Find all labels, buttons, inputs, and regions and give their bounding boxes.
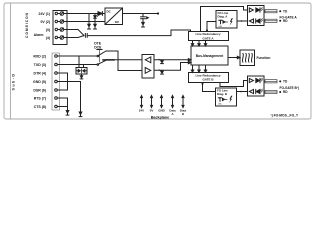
label RD A bbox=[283, 19, 288, 23]
ground TVS bbox=[80, 76, 83, 79]
pin RXD (2) label bbox=[33, 54, 46, 58]
TVS on line 1 bbox=[159, 59, 163, 63]
B TX driver triangle bbox=[249, 78, 253, 82]
wire CTS stub bbox=[60, 106, 68, 108]
wire gate A TX up and over bbox=[201, 7, 248, 32]
wire RX B from transceiver to diag B bbox=[237, 91, 248, 93]
node gate A junction dot bbox=[206, 29, 208, 31]
Line Redundancy GATE A box bbox=[189, 32, 229, 41]
svg-text:RXD (2): RXD (2) bbox=[33, 54, 46, 58]
pin TXD circle bbox=[55, 63, 60, 66]
arrowhead into function bbox=[237, 56, 240, 58]
FO transceiver B box bbox=[248, 76, 265, 96]
svg-text:B: B bbox=[182, 112, 184, 116]
svg-text:24V (1): 24V (1) bbox=[39, 12, 50, 16]
Sub-D vertical label bbox=[12, 72, 16, 90]
diag B meter glyph bbox=[218, 98, 227, 102]
A photodiode bbox=[256, 19, 263, 24]
svg-text:DTR (4): DTR (4) bbox=[34, 71, 46, 75]
TVS on line 2 bbox=[159, 70, 163, 74]
ground 24V tap bbox=[88, 24, 91, 29]
terminal Alarm (4) label bbox=[34, 33, 50, 40]
Function label bbox=[257, 56, 271, 60]
svg-text:Sub-D: Sub-D bbox=[12, 72, 16, 90]
label Backplane bbox=[151, 116, 169, 120]
pin GND (5) label bbox=[33, 80, 46, 84]
svg-text:0V: 0V bbox=[150, 109, 154, 113]
terminal 1 screw symbol bbox=[55, 12, 64, 16]
bus arrows gate A to bus management bbox=[191, 41, 206, 47]
terminal 2 screw symbol bbox=[55, 20, 64, 24]
svg-text:0V (2): 0V (2) bbox=[40, 20, 50, 24]
ground GND net bbox=[79, 112, 82, 117]
backplane arrow 24V bbox=[141, 95, 143, 107]
Bus-Management box bbox=[191, 46, 228, 65]
pin RTS circle bbox=[55, 97, 60, 100]
Sub-D connector block bbox=[52, 53, 60, 110]
wire DTR-DSR jumper bbox=[60, 73, 68, 90]
diode D1 polarity protection bbox=[98, 12, 105, 16]
node gate B junction dot bbox=[202, 83, 204, 85]
wire alarm contact from (4) bbox=[64, 37, 78, 39]
wire capacitor to ground bbox=[142, 19, 144, 23]
FO Line Diag A box bbox=[216, 11, 237, 29]
wire TVS stub from TXD bbox=[83, 65, 85, 68]
arrowhead into bus management bottom bbox=[188, 61, 191, 63]
node TD A dot bbox=[279, 10, 281, 12]
A LED emitter bbox=[256, 8, 263, 13]
coil 1 bbox=[241, 53, 244, 62]
RS-232 transceiver U2 bbox=[142, 55, 154, 79]
B RX buffer triangle bbox=[249, 89, 253, 93]
svg-text:RTS (7): RTS (7) bbox=[34, 96, 46, 100]
COMBICON vertical label bbox=[25, 12, 29, 38]
switch S1 linkage bbox=[97, 49, 102, 51]
diag A bolt glyph bbox=[230, 18, 233, 25]
U2 receive buffer bbox=[145, 57, 151, 63]
wire RXD bbox=[60, 55, 98, 57]
wire U2 bottom output to bus management bbox=[154, 63, 189, 71]
label FO-GATE A bbox=[280, 16, 298, 20]
wire TXD bbox=[60, 64, 98, 66]
pin DTR circle bbox=[55, 72, 60, 75]
arrowhead into bus management top bbox=[188, 59, 191, 61]
diag B bolt glyph bbox=[229, 96, 232, 103]
ground 0V tap bbox=[94, 24, 97, 29]
svg-text:CTS (8): CTS (8) bbox=[34, 105, 46, 109]
backplane arrow GND bbox=[161, 95, 163, 107]
relay contact K1 bbox=[78, 30, 85, 38]
svg-text:(3): (3) bbox=[46, 28, 50, 32]
B LED emitter bbox=[256, 78, 263, 83]
U2 transmit buffer bbox=[145, 68, 151, 74]
node RX A dot bbox=[241, 20, 243, 22]
COMBICON terminal block bbox=[53, 11, 67, 45]
coil 3 bbox=[247, 53, 250, 62]
svg-text:Alarm: Alarm bbox=[34, 33, 44, 37]
pin RXD circle bbox=[55, 55, 60, 58]
svg-text:TD: TD bbox=[283, 9, 288, 13]
capacitor C1 bbox=[141, 17, 149, 19]
coil 2 bbox=[244, 53, 247, 62]
svg-text:LWL: LWL bbox=[219, 26, 223, 28]
svg-text:DCE: DCE bbox=[94, 46, 102, 50]
svg-text:GATE B: GATE B bbox=[202, 78, 214, 82]
wire gate B TX down and over bbox=[220, 81, 248, 87]
wire RX A from transceiver to diag A bbox=[237, 20, 248, 22]
svg-text:LWL: LWL bbox=[218, 104, 222, 106]
pin CTS circle bbox=[55, 105, 60, 108]
pin DTR (4) label bbox=[34, 71, 46, 75]
svg-text:GATE A: GATE A bbox=[203, 36, 215, 40]
switch S1 pole RXD bbox=[97, 51, 118, 57]
pin DSR (6) label bbox=[33, 88, 46, 92]
terminal 24V (1) label bbox=[39, 12, 50, 16]
svg-text:Backplane: Backplane bbox=[151, 116, 169, 120]
B photodiode bbox=[256, 89, 263, 94]
pin DSR circle bbox=[55, 89, 60, 92]
svg-text:GND: GND bbox=[158, 109, 164, 113]
svg-text:RD: RD bbox=[283, 19, 288, 23]
svg-text:Diag. A: Diag. A bbox=[218, 15, 229, 19]
svg-text:TXD (3): TXD (3) bbox=[34, 63, 46, 67]
label TD B bbox=[283, 80, 288, 84]
backplane labels bbox=[139, 109, 187, 116]
label RD B bbox=[283, 90, 288, 94]
wire RTS-CTS jumper bbox=[60, 98, 68, 111]
wire TVS stub from RXD bbox=[78, 56, 80, 68]
svg-text:Diag. B: Diag. B bbox=[217, 92, 227, 96]
node RX B dot bbox=[240, 91, 242, 93]
terminal 3 screw symbol bbox=[55, 28, 64, 32]
Line Redundancy GATE B box bbox=[189, 73, 229, 83]
inner left divider bbox=[10, 3, 12, 119]
pin TXD (3) label bbox=[34, 63, 46, 67]
diag A meter glyph bbox=[219, 20, 228, 24]
switch S1 pole TXD bbox=[97, 60, 114, 66]
svg-text:COMBICON: COMBICON bbox=[25, 12, 29, 38]
node RD A dot bbox=[279, 20, 281, 22]
pin GND circle bbox=[55, 80, 60, 83]
node TD B dot bbox=[279, 80, 281, 82]
wire 0V ground tap bbox=[94, 14, 96, 25]
diag A microtext bbox=[219, 26, 223, 28]
wire bus management to function bbox=[228, 57, 240, 59]
label TD A bbox=[283, 9, 288, 13]
A TX driver triangle bbox=[249, 8, 253, 12]
svg-text:GND (5): GND (5) bbox=[33, 80, 46, 84]
FO transceiver A box bbox=[248, 6, 265, 26]
wire 24V rail bbox=[64, 13, 98, 15]
ground capacitor bbox=[142, 22, 145, 27]
DTE DCE switch labels bbox=[94, 42, 102, 50]
wire 0V rail bbox=[64, 21, 105, 23]
DC/DC converter U1 bbox=[105, 8, 123, 25]
svg-text:TD: TD bbox=[283, 80, 288, 84]
node supply dot bbox=[157, 12, 159, 14]
coil 4 bbox=[250, 53, 253, 62]
backplane arrow Data A bbox=[172, 95, 174, 107]
wire GND net bbox=[60, 82, 81, 113]
pin CTS (8) label bbox=[34, 105, 46, 109]
fiber connector B RD bbox=[265, 90, 277, 93]
pin RTS (7) label bbox=[34, 96, 46, 100]
wire TXD to transceiver bbox=[107, 59, 142, 61]
svg-text:DSR (6): DSR (6) bbox=[33, 88, 46, 92]
fiber connector A TD bbox=[265, 10, 277, 13]
svg-text:24V: 24V bbox=[139, 109, 144, 113]
ground RTS/CTS bbox=[66, 111, 69, 116]
wire 24V ground tap bbox=[88, 14, 90, 25]
wire crossover vertical bbox=[118, 51, 142, 71]
wire U2 top output to bus management bbox=[154, 59, 189, 61]
wire capacitor branch bbox=[142, 14, 144, 17]
bus arrows bus management to gate B bbox=[191, 65, 206, 72]
svg-text:RD: RD bbox=[283, 90, 288, 94]
fiber connector B TD bbox=[265, 80, 277, 83]
footnote bbox=[271, 114, 298, 118]
svg-text:Bus-Management: Bus-Management bbox=[196, 54, 224, 58]
terminal 4 screw symbol bbox=[55, 36, 64, 40]
wire diag A to gate A bbox=[207, 22, 216, 32]
backplane arrow Data B bbox=[182, 95, 184, 107]
A RX buffer triangle bbox=[249, 19, 253, 23]
wire DC/DC output rail bbox=[123, 13, 159, 15]
diag B microtext bbox=[218, 104, 222, 106]
border frame bbox=[4, 3, 311, 119]
FO Line Diag B box bbox=[216, 88, 237, 106]
terminal (3) label bbox=[46, 28, 50, 32]
svg-text:Function: Function bbox=[257, 56, 271, 60]
wire alarm contact from (3) bbox=[64, 29, 78, 31]
svg-text:(4): (4) bbox=[46, 36, 50, 40]
fiber connector A RD bbox=[265, 19, 277, 22]
label FO-GATE B bbox=[280, 86, 299, 90]
svg-text:¹) FO-MOS...FO..T: ¹) FO-MOS...FO..T bbox=[271, 114, 298, 118]
wire TVS to ground bbox=[81, 74, 83, 76]
backplane arrow 0V bbox=[151, 95, 153, 107]
TVS protection box bbox=[76, 68, 87, 75]
wire alarm to gate A bbox=[87, 30, 190, 36]
opto element alarm bbox=[85, 34, 87, 38]
node RD B dot bbox=[279, 91, 281, 93]
Function DIP block bbox=[240, 50, 255, 66]
terminal 0V (2) label bbox=[40, 20, 50, 24]
wire diag B to gate B bbox=[203, 83, 216, 92]
